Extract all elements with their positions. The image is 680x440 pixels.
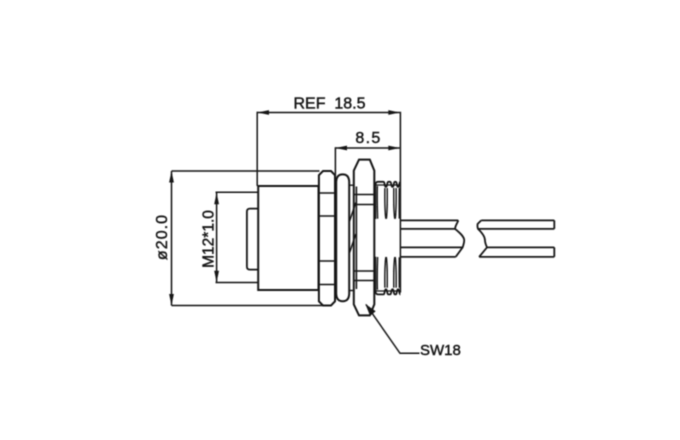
svg-text:REF 18.5: REF 18.5 [293, 96, 365, 113]
dimension ø20.0 arrow up [169, 171, 174, 183]
washer bottom edge [349, 290, 354, 292]
connector main body [258, 186, 318, 290]
washer top edge [349, 184, 354, 186]
cable segment 2 break edge [477, 220, 487, 257]
dimension REF 18.5 / 8.5 right extension line [399, 112, 401, 293]
hex nut facet line 3 [354, 270, 375, 272]
cable segment 1 break edge [455, 220, 464, 257]
hex collar facet line 2 [319, 215, 335, 217]
hex nut facet line 2 [354, 204, 375, 206]
hex nut SW18 outline [354, 160, 375, 316]
dimension REF 18.5 dim line [258, 112, 400, 114]
dimension M12*1.0 extension line bottom [216, 282, 258, 284]
dimension REF 18.5 arrow right [388, 110, 400, 115]
hex collar facet line 1 [319, 192, 335, 194]
dimension 8.5 arrow right [388, 146, 400, 151]
thread flank lines bottom [377, 257, 399, 290]
hex nut facet line 4 [354, 280, 375, 282]
dimension ø20.0 extension line bottom [172, 305, 323, 307]
thread root line top [375, 184, 400, 186]
svg-text:M12*1.0: M12*1.0 [200, 210, 217, 268]
dimension ø20.0 dim line [171, 171, 173, 306]
SW18 leader line [366, 305, 420, 354]
svg-text:ø20.0: ø20.0 [154, 214, 171, 260]
dimension M12*1.0 dim line [216, 193, 218, 282]
nut inner facet edge [355, 187, 357, 290]
dimension REF 18.5 left extension line [256, 112, 258, 186]
thread crest outline top [375, 182, 400, 219]
dimension ø20.0 extension line top [172, 170, 320, 172]
cable segment 2 lower strip [479, 247, 554, 257]
thread root line bottom [375, 290, 400, 292]
svg-text:8.5: 8.5 [355, 130, 381, 147]
cable segment 2 right end caps [553, 220, 555, 257]
dimension M12*1.0 arrow up [214, 193, 219, 205]
hex collar facet line 3 [319, 260, 335, 262]
washer split line lower [350, 234, 356, 253]
dimension M12*1.0 arrow down [214, 271, 219, 283]
dimension 8.5 arrow left [336, 146, 348, 151]
cable segment 1 upper strip [400, 220, 458, 229]
svg-text:SW18: SW18 [420, 342, 461, 359]
connector front socket protrusion [247, 209, 258, 270]
dimension REF 18.5 arrow left [258, 110, 270, 115]
cable segment 2 upper strip [478, 220, 554, 229]
SW18 leader arrowhead [365, 304, 375, 316]
dimension M12*1.0 extension line top [216, 191, 258, 193]
thread flank lines top [377, 186, 399, 219]
thread crest outline bottom [375, 257, 400, 295]
dimension 8.5 dim line [336, 147, 400, 149]
dimension 8.5 left extension line [334, 147, 336, 176]
hex collar outline [319, 171, 335, 306]
cable segment 1 lower strip [400, 247, 462, 257]
dimension ø20.0 arrow down [169, 294, 174, 306]
hex nut facet line 1 [354, 194, 375, 196]
flange disc [336, 174, 349, 301]
hex collar facet line 4 [319, 284, 335, 286]
washer split line upper [350, 203, 356, 222]
